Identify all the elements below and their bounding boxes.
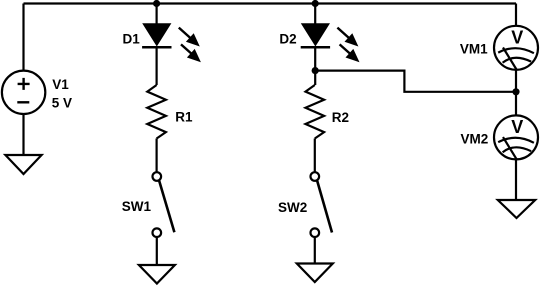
LED D2 xyxy=(301,24,360,62)
svg-text:V: V xyxy=(511,117,523,137)
wire D1 cathode to R1 xyxy=(156,47,158,85)
voltmeter VM2 xyxy=(494,115,538,159)
svg-text:D2: D2 xyxy=(279,32,296,47)
switch SW1 xyxy=(153,172,175,237)
svg-text:R1: R1 xyxy=(175,110,193,125)
wire SW2 to ground xyxy=(314,237,316,264)
wire SW1 to ground xyxy=(156,237,158,265)
ground GND V1 xyxy=(5,155,41,174)
wire R2 to SW2 xyxy=(314,139,316,173)
wire VM1 to node B xyxy=(515,70,517,92)
switch SW2 xyxy=(311,172,333,237)
svg-text:V: V xyxy=(511,27,523,47)
wire V1 bottom lead xyxy=(22,114,24,155)
LED D1 xyxy=(142,24,201,62)
voltage source V1 xyxy=(2,71,45,114)
node A junction D2/R2/voltmeter tap xyxy=(312,67,319,74)
wire node B to VM2 xyxy=(515,92,517,116)
node junction top of D1 xyxy=(153,0,160,7)
svg-text:SW1: SW1 xyxy=(122,199,152,214)
svg-text:VM1: VM1 xyxy=(460,42,488,57)
wire V1 top lead xyxy=(22,4,24,71)
ground GND VM2 xyxy=(498,200,535,218)
resistor R2 xyxy=(306,85,325,139)
wire VM2 to ground xyxy=(515,159,517,200)
svg-text:R2: R2 xyxy=(332,110,349,125)
node B junction VM1/VM2/tap xyxy=(512,88,519,95)
ground GND SW2 xyxy=(297,264,333,283)
wire R1 to SW1 xyxy=(156,139,158,173)
svg-text:VM2: VM2 xyxy=(461,132,489,147)
wire top bus xyxy=(24,2,517,4)
wire D2 anode lead xyxy=(314,4,316,26)
svg-text:SW2: SW2 xyxy=(278,200,307,215)
node junction top of D2 xyxy=(312,0,319,7)
svg-text:5 V: 5 V xyxy=(52,96,72,111)
wire D1 anode lead xyxy=(156,4,158,26)
ground GND SW1 xyxy=(139,265,175,284)
voltmeter VM1 xyxy=(494,26,538,70)
svg-text:D1: D1 xyxy=(123,32,141,47)
wire node A to voltmeter junction (step) xyxy=(315,71,516,92)
wire node A to R2 xyxy=(314,71,316,85)
wire top bus to VM1 xyxy=(515,4,517,26)
wire D2 cathode to node A xyxy=(314,47,316,70)
svg-text:V1: V1 xyxy=(52,77,69,92)
resistor R1 xyxy=(147,85,166,139)
